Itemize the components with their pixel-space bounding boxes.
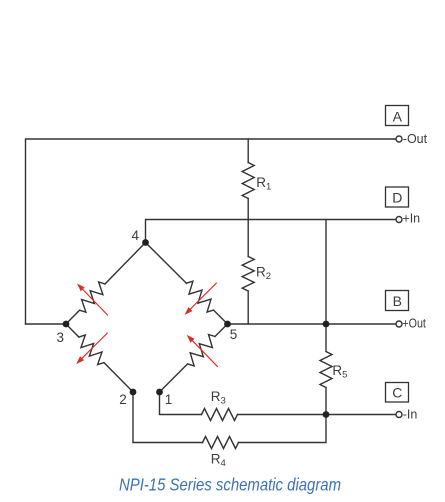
- svg-text:4: 4: [131, 228, 139, 243]
- junction -In: [323, 411, 330, 418]
- wire top -Out rail: [26, 139, 397, 324]
- pin box D: [386, 187, 409, 207]
- wire node2 drop: [133, 392, 203, 443]
- svg-text:1: 1: [165, 392, 173, 407]
- svg-text:-In: -In: [403, 407, 418, 421]
- svg-text:NPI-15 Series schematic diagra: NPI-15 Series schematic diagram: [119, 475, 341, 495]
- terminal C circle: [396, 412, 402, 418]
- svg-text:3: 3: [56, 330, 64, 345]
- svg-text:R3: R3: [211, 389, 226, 407]
- strain gauge bridge arm 3-2: [66, 324, 133, 392]
- node 2: [130, 389, 137, 396]
- svg-text:C: C: [392, 385, 402, 401]
- svg-text:5: 5: [230, 327, 238, 342]
- svg-text:R4: R4: [211, 451, 226, 469]
- strain gauge bridge arm 4-5: [146, 243, 228, 325]
- svg-text:R2: R2: [256, 265, 271, 283]
- terminal B circle: [396, 321, 402, 327]
- svg-text:2: 2: [119, 392, 127, 407]
- strain gauge bridge arm 4-3: [66, 243, 146, 325]
- resistor R2: [242, 220, 254, 325]
- arrow gauge lower-right: [187, 335, 218, 367]
- pin box B: [386, 291, 409, 311]
- svg-text:A: A: [393, 108, 403, 124]
- wire node1 drop: [160, 392, 202, 415]
- arrow gauge upper-right: [185, 283, 217, 315]
- wire R4 riser: [239, 415, 327, 443]
- pin box C: [386, 383, 409, 403]
- node 3: [63, 321, 70, 328]
- resistor R4: [203, 437, 239, 449]
- svg-text:B: B: [393, 293, 402, 309]
- node 5: [224, 321, 231, 328]
- junction +Out: [323, 321, 330, 328]
- arrow gauge upper-left: [77, 284, 108, 316]
- terminal D circle: [396, 217, 402, 223]
- svg-text:R5: R5: [332, 363, 347, 381]
- wire vertical In-to-Out link: [325, 220, 327, 325]
- arrow gauge lower-left: [76, 333, 108, 365]
- svg-text:D: D: [392, 189, 402, 205]
- wire +Out rail: [228, 323, 397, 325]
- svg-text:R1: R1: [256, 175, 271, 193]
- terminal A circle: [396, 136, 402, 142]
- svg-text:-Out: -Out: [403, 132, 428, 146]
- resistor R1: [242, 139, 254, 220]
- wire +In rail: [146, 220, 397, 243]
- resistor R3: [202, 409, 238, 421]
- resistor R5: [320, 324, 332, 415]
- strain gauge bridge arm 5-1: [160, 324, 228, 392]
- node 4: [142, 239, 149, 246]
- svg-text:+Out: +Out: [402, 316, 426, 330]
- wire node3 stub: [26, 323, 67, 325]
- svg-text:+In: +In: [402, 211, 420, 225]
- pin box A: [386, 106, 409, 126]
- node 1: [156, 389, 163, 396]
- wire -In rail: [238, 414, 397, 416]
